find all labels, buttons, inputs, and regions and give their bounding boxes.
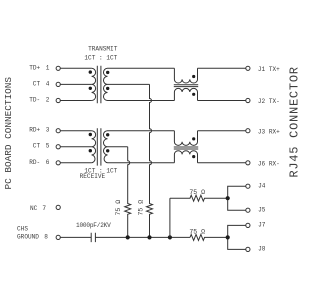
svg-text:75 Ω: 75 Ω: [189, 229, 205, 236]
junction dot R1/ground: [147, 235, 151, 239]
choke L1 (transmit common-mode) top winding: [174, 68, 197, 83]
resistor R4 75ohm (J7/J8 termination): [190, 234, 228, 240]
wire pin6 to T2 primary: [60, 162, 91, 164]
choke L1 top phase dot: [192, 75, 195, 78]
svg-text:PC BOARD CONNECTIONS: PC BOARD CONNECTIONS: [3, 77, 14, 190]
terminal pin 3: [56, 129, 60, 133]
terminal pin 4: [56, 82, 60, 86]
svg-text:J1 TX+: J1 TX+: [258, 66, 280, 73]
terminal J5: [246, 208, 250, 212]
junction dot R2/ground: [126, 235, 130, 239]
svg-text:CT: CT: [33, 143, 41, 150]
terminal pin 6: [56, 161, 60, 165]
choke L2 top phase dot: [192, 137, 195, 140]
ground bus wire: [95, 236, 190, 238]
transformer T1 secondary phase dot (top): [106, 71, 109, 74]
choke L2 core: [174, 147, 198, 149]
svg-text:CT: CT: [33, 80, 41, 87]
svg-text:8: 8: [44, 234, 48, 241]
transformer T2 secondary winding: [103, 131, 107, 163]
svg-text:RJ45 CONNECTOR: RJ45 CONNECTOR: [288, 66, 301, 177]
svg-text:2: 2: [46, 97, 50, 104]
wire T2 secondary top to choke L2: [108, 130, 175, 132]
terminal J6: [246, 161, 250, 165]
resistor R3 75ohm (J4/J5 termination): [170, 195, 228, 201]
junction dot R3 leg/ground: [168, 235, 172, 239]
terminal pin 7 (NC): [56, 205, 60, 209]
transformer T1 core: [97, 66, 101, 103]
junction dot J4/J5 node: [226, 196, 230, 200]
choke L1 bottom phase dot: [192, 93, 195, 96]
wire pin1 to T1 primary: [60, 67, 91, 69]
svg-text:RECEIVE: RECEIVE: [80, 173, 106, 180]
transformer T2 core: [97, 128, 101, 165]
svg-text:6: 6: [46, 159, 50, 166]
wire choke L2 to J3: [198, 130, 246, 132]
transformer T1 primary phase dot (lower half): [89, 87, 92, 90]
transformer T2 (receive) primary winding: [92, 131, 96, 163]
svg-text:TD-: TD-: [29, 97, 40, 104]
terminal pin 1: [56, 66, 60, 70]
transformer T2 secondary phase dot (top): [106, 133, 109, 136]
svg-text:1: 1: [46, 64, 50, 71]
wire fork to J7/J8: [228, 225, 246, 249]
terminal pin 5: [56, 145, 60, 149]
svg-text:J6 RX-: J6 RX-: [258, 160, 280, 167]
transformer T1 primary phase dot (top): [89, 70, 92, 73]
wire R3 leg to ground bus: [169, 198, 171, 237]
choke L1 core: [174, 85, 198, 87]
svg-text:CHS: CHS: [17, 225, 28, 232]
svg-text:7: 7: [42, 205, 46, 212]
choke L2 (receive common-mode) top winding: [174, 131, 197, 146]
wire pin2 to T1 primary: [60, 100, 91, 102]
terminal pin 2: [56, 98, 60, 102]
transformer T2 secondary phase dot (lower half): [106, 149, 109, 152]
svg-text:RD+: RD+: [29, 127, 40, 134]
wire T1 secondary top to choke L1: [108, 67, 175, 69]
wire pin4 to T1 primary CT: [60, 83, 91, 85]
resistor R1 75ohm (T1 CT termination) with crossover hops: [147, 84, 153, 237]
capacitor C1 plates: [91, 233, 95, 242]
svg-text:J4: J4: [258, 182, 266, 189]
svg-text:5: 5: [46, 143, 50, 150]
wire choke L1 to J2: [198, 100, 246, 102]
resistor R2 75ohm (T2 CT termination) with crossover hop: [125, 147, 131, 238]
svg-text:3: 3: [46, 127, 50, 134]
svg-text:75 Ω: 75 Ω: [137, 200, 144, 216]
svg-text:J8: J8: [258, 246, 266, 253]
capacitor C1 1000pF/2KV lead from pin 8: [60, 236, 91, 238]
wire T1 secondary center tap (horizontal): [108, 83, 150, 85]
wire T2 secondary bottom to choke L2: [108, 162, 175, 164]
svg-text:J7: J7: [258, 222, 266, 229]
svg-text:1000pF/2KV: 1000pF/2KV: [76, 222, 111, 229]
wire fork to J4/J5: [228, 186, 246, 210]
svg-text:75 Ω: 75 Ω: [115, 200, 122, 216]
wire choke L2 to J6: [198, 162, 246, 164]
wire choke L1 to J1: [198, 67, 246, 69]
transformer T2 primary phase dot (lower half): [89, 149, 92, 152]
choke L2 bottom phase dot: [192, 155, 195, 158]
terminal J4: [246, 184, 250, 188]
wire T2 secondary center tap (horizontal): [108, 146, 128, 148]
choke L1 bottom winding: [174, 88, 197, 100]
terminal J7: [246, 223, 250, 227]
svg-text:GROUND: GROUND: [17, 234, 39, 241]
transformer T2 primary phase dot (top): [89, 133, 92, 136]
wire pin5 to T2 primary CT: [60, 146, 91, 148]
svg-text:TRANSMIT: TRANSMIT: [88, 45, 118, 52]
svg-text:NC: NC: [30, 205, 38, 212]
transformer T1 secondary winding: [103, 68, 107, 100]
transformer T1 secondary phase dot (lower half): [106, 87, 109, 90]
transformer T1 (transmit) primary winding: [92, 68, 96, 100]
svg-text:1CT : 1CT: 1CT : 1CT: [84, 54, 117, 61]
terminal J3: [246, 129, 250, 133]
svg-text:TD+: TD+: [29, 64, 40, 71]
svg-text:4: 4: [46, 80, 50, 87]
junction dot J7/J8 node: [226, 235, 230, 239]
svg-text:75 Ω: 75 Ω: [189, 189, 205, 196]
choke L2 bottom winding: [174, 151, 197, 163]
svg-text:J5: J5: [258, 206, 266, 213]
wire pin3 to T2 primary: [60, 130, 91, 132]
terminal J2: [246, 98, 250, 102]
svg-text:J3 RX+: J3 RX+: [258, 128, 280, 135]
svg-text:RD-: RD-: [29, 159, 40, 166]
terminal J1: [246, 66, 250, 70]
wire T1 secondary bottom to choke L1: [108, 100, 175, 102]
terminal pin 8 (chassis ground): [56, 235, 60, 239]
terminal J8: [246, 247, 250, 251]
svg-text:J2 TX-: J2 TX-: [258, 98, 280, 105]
